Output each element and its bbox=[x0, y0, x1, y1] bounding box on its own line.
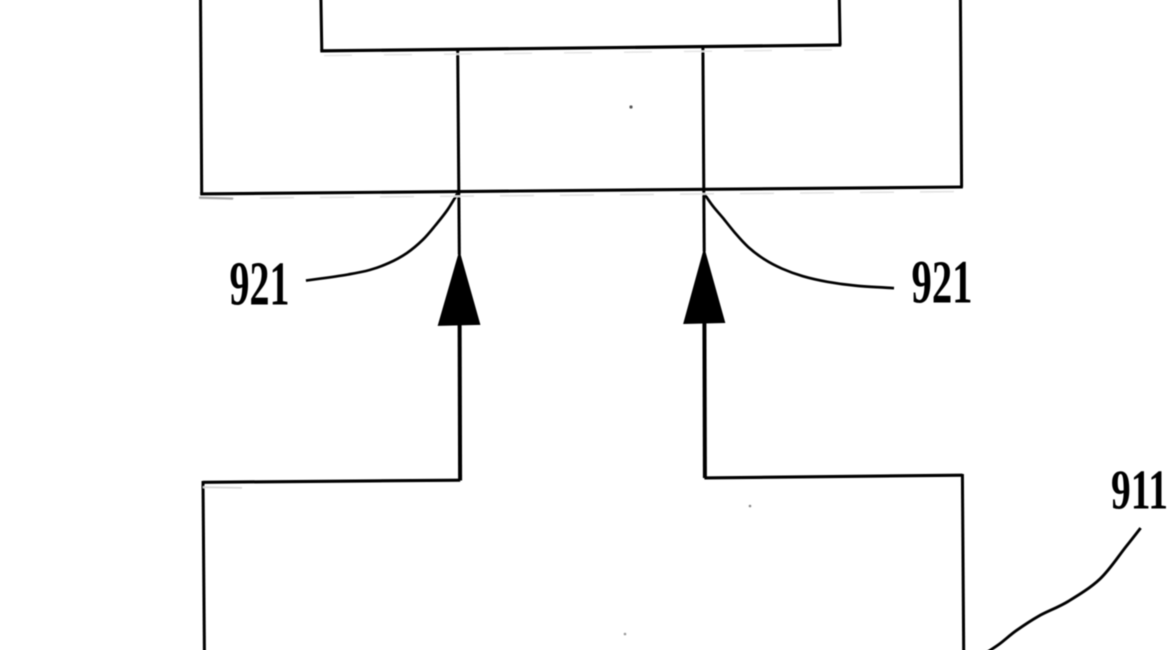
upper inner small rectangle left edge bbox=[319, 0, 323, 51]
scan speck centre lower bbox=[749, 505, 752, 508]
upper body outer rectangle right edge bbox=[960, 0, 961, 187]
right inner vertical wall / arrow lead-in line bbox=[703, 47, 704, 252]
lower body right step horizontal edge bbox=[704, 475, 962, 478]
left arrow head (filled triangle, pointing up) bbox=[438, 252, 480, 325]
upper inner small rectangle right edge bbox=[838, 0, 842, 45]
leader curve to right label 921 bbox=[704, 194, 894, 289]
right arrow head (filled triangle, pointing up) bbox=[684, 249, 725, 324]
faint scan ghost under small rectangle bottom edge bbox=[324, 50, 838, 56]
scan speck near centre top bbox=[629, 105, 632, 108]
faint scan smudge under lower-left step corner bbox=[203, 486, 242, 489]
upper body outer rectangle bottom edge bbox=[200, 187, 963, 194]
scan speck bottom centre bbox=[624, 633, 627, 636]
leader curve to label 911 bbox=[988, 528, 1141, 650]
upper inner small rectangle bottom edge bbox=[320, 45, 841, 51]
svg-text:911: 911 bbox=[1111, 460, 1168, 522]
darker scan smudge at outer rectangle bottom-left corner bbox=[199, 198, 233, 199]
lower body left step horizontal edge bbox=[203, 480, 460, 482]
left inner vertical wall / arrow lead-in line bbox=[458, 49, 460, 254]
leader curve to left label 921 bbox=[306, 194, 458, 281]
faint scan ghost under outer rectangle bottom edge bbox=[200, 192, 958, 199]
right arrow shaft bbox=[702, 322, 707, 478]
svg-text:921: 921 bbox=[912, 250, 973, 317]
lower body left vertical edge bbox=[203, 481, 204, 650]
lower body right vertical edge bbox=[962, 474, 963, 650]
left arrow shaft bbox=[458, 324, 463, 481]
svg-text:921: 921 bbox=[230, 250, 290, 318]
upper body outer rectangle left edge bbox=[201, 0, 202, 194]
